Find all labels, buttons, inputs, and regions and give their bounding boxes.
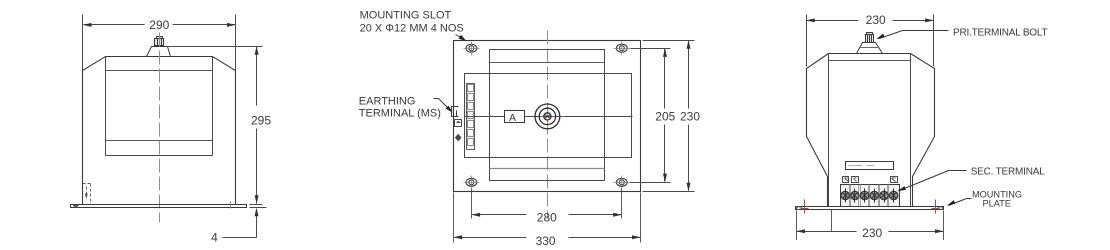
dimension 230 right line: [688, 41, 690, 191]
dimension 295 line: [256, 47, 258, 204]
plate end slots right view: [796, 207, 801, 210]
dimension 295 extension line top: [168, 46, 263, 48]
dimension 230 bottom extension lines: [797, 210, 944, 241]
svg-text:230: 230: [866, 13, 886, 27]
primary terminal bolt left view: [147, 37, 171, 57]
secondary terminal strip top view: [467, 84, 475, 150]
mounting slot bottom-right: [616, 178, 627, 186]
earthing terminal bracket top view: [452, 107, 459, 117]
svg-text:280: 280: [537, 211, 557, 225]
dimension 4 lower arrow and leader: [223, 211, 257, 238]
dimension 205 line: [664, 49, 666, 182]
leader earthing terminal: [434, 99, 451, 111]
band line top left view: [106, 70, 213, 72]
svg-text:A: A: [509, 112, 516, 124]
inner core rectangle left view: [106, 57, 213, 156]
mounting slot top-right: [616, 44, 627, 52]
dimension 230 top extension lines: [807, 15, 934, 67]
dimension 330 line: [455, 237, 641, 239]
band line bottom: [490, 168, 605, 170]
mounting plate rectangle top view: [454, 41, 641, 192]
mounting slot bottom-left: [466, 178, 477, 186]
label MOUNTING PLATE leader: [949, 199, 972, 206]
tank rectangle top view: [465, 74, 632, 158]
svg-text:290: 290: [149, 18, 169, 32]
leader mounting slot: [456, 35, 465, 40]
earthing terminal hidden detail left view: [83, 184, 91, 205]
label SEC. TERMINAL leader: [900, 171, 967, 191]
dimension 280 line: [473, 214, 622, 216]
mounting base plate left view: [71, 205, 247, 208]
mounting base plate right view: [796, 207, 944, 210]
body outline left view: [83, 57, 236, 205]
red hole centerline right: [932, 200, 940, 214]
plate end hole left view: [73, 204, 79, 207]
dimension 230 bottom line: [797, 231, 944, 233]
svg-text:PLATE: PLATE: [983, 198, 1011, 208]
nameplate right view: [846, 162, 894, 170]
horizontal centerline top view: [465, 116, 633, 118]
svg-text:SEC. TERMINAL: SEC. TERMINAL: [971, 167, 1046, 178]
dimension 230 top line: [807, 20, 934, 22]
svg-text:205: 205: [655, 110, 675, 124]
dimension 330 extension lines: [454, 193, 641, 243]
inner face rectangle right view: [829, 54, 911, 207]
datum label A box: [505, 111, 525, 123]
centerline left view: [159, 33, 161, 223]
band line right view: [829, 60, 911, 62]
svg-text:230: 230: [862, 226, 882, 240]
secondary terminal block right view: [841, 185, 900, 207]
primary terminal circles top view: [535, 104, 560, 129]
core column rectangle top view: [490, 50, 605, 181]
svg-text:295: 295: [251, 114, 271, 128]
svg-text:4: 4: [211, 230, 218, 244]
earthing diamond mark: [455, 134, 462, 142]
svg-text:PRI.TERMINAL BOLT: PRI.TERMINAL BOLT: [953, 27, 1047, 38]
dimension 280 extension lines: [472, 189, 622, 219]
red hole centerline left: [801, 200, 809, 214]
plate tick left view: [230, 202, 232, 209]
dimension 205 extension lines: [631, 49, 671, 183]
svg-text:MOUNTING SLOT: MOUNTING SLOT: [360, 10, 452, 22]
vertical centerline top view: [547, 31, 549, 219]
earthing terminal arrow mark: [85, 194, 88, 200]
dimension 290 line: [84, 24, 236, 26]
label PRI.TERMINAL BOLT leader: [879, 31, 949, 39]
svg-text:230: 230: [680, 110, 700, 124]
dimension 295 arrowheads: [255, 46, 259, 204]
svg-text:TERMINAL (MS): TERMINAL (MS): [359, 108, 441, 120]
svg-text:EARTHING: EARTHING: [359, 96, 416, 108]
body outline right view: [807, 54, 935, 207]
primary terminal bolt right view: [857, 33, 883, 54]
terminal screws right view: [841, 191, 898, 199]
band line bottom left view: [106, 140, 213, 142]
earthing terminal square with dot: [455, 120, 462, 127]
svg-text:330: 330: [536, 234, 556, 248]
dimension 4 extension lines: [250, 205, 267, 208]
terminal marking squares right view: [843, 177, 898, 183]
dimension 230 right extension lines: [643, 41, 695, 192]
mounting slot top-left: [466, 44, 477, 52]
svg-text:20 X Φ12 MM 4 NOS: 20 X Φ12 MM 4 NOS: [360, 23, 464, 35]
band line top: [490, 62, 605, 64]
red centerline segment: [539, 116, 565, 118]
dimension 290 arrowheads: [83, 23, 236, 27]
dimension 290 extension lines: [83, 15, 236, 71]
